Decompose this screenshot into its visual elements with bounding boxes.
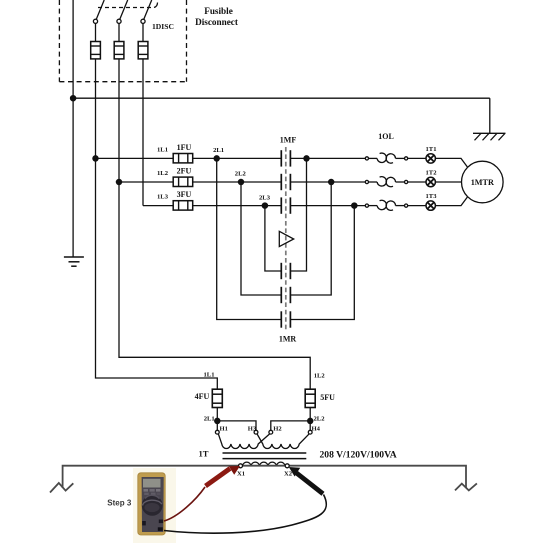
fuse 4FU — [212, 389, 222, 407]
wire pole2 circle to fuse — [118, 23, 120, 41]
disconnect switch 1DISC pole 1 hinge circle — [93, 19, 97, 23]
wire phase C fuse to line 3 — [142, 59, 144, 206]
fuse 2 of 1DISC — [114, 42, 124, 59]
contactor 1MF pole 3 contacts — [280, 197, 282, 213]
earth ground symbol (hatched) — [473, 133, 506, 140]
motor terminal 1T3 (circle with X) — [426, 201, 435, 210]
transformer 1T primary winding H3-H4 — [257, 434, 309, 449]
svg-text:3FU: 3FU — [177, 190, 192, 199]
wire phase B fuse to line 2 — [118, 59, 120, 182]
meter holster — [138, 473, 165, 535]
line 1 wire 1MF to overload — [290, 157, 365, 159]
wire 2L1 jog to H3 — [217, 421, 256, 430]
svg-text:H1: H1 — [220, 426, 228, 433]
svg-text:2FU: 2FU — [177, 166, 192, 175]
junction at ground bus — [71, 96, 76, 101]
svg-text:1L3: 1L3 — [157, 194, 169, 201]
node 2L3 drop wire to 1MR row A — [265, 206, 281, 271]
line 3 wire to 1MF — [193, 205, 282, 207]
fuse 5FU — [305, 389, 315, 407]
control power rail — [50, 466, 477, 493]
transformer core lines — [223, 452, 307, 454]
line 2 wire left — [119, 181, 173, 183]
contactor 1MF pole 2 contacts — [280, 174, 282, 190]
equipment ground bus horizontal wire — [73, 97, 490, 99]
linkage end hook — [154, 3, 158, 8]
rail break squiggle right — [455, 483, 477, 490]
red probe shaft — [206, 469, 231, 487]
svg-text:2L2: 2L2 — [314, 415, 326, 422]
motor terminal 1T1 (circle with X) — [426, 154, 435, 163]
junction node 2L1 (transformer) — [215, 418, 220, 423]
svg-text:2L3: 2L3 — [259, 195, 271, 202]
terminal H4 — [308, 430, 312, 434]
motor 1MTR circle — [462, 161, 504, 203]
svg-text:2L1: 2L1 — [213, 147, 224, 154]
svg-text:4FU: 4FU — [195, 392, 210, 401]
meter buttons — [144, 489, 149, 492]
wire phase A fuse to line 1 — [95, 59, 97, 158]
wire pole3 circle to fuse — [142, 23, 144, 41]
wire 1MR row B to line 2 right — [290, 182, 331, 295]
svg-text:2L2: 2L2 — [235, 171, 247, 178]
node 2L1 drop wire to 1MR row C — [217, 158, 282, 319]
disconnect switch 1DISC pole 2 hinge circle — [117, 19, 121, 23]
svg-text:1L2: 1L2 — [157, 170, 169, 177]
terminal H2 — [269, 430, 273, 434]
fuse 1FU — [173, 154, 193, 163]
meter rotary dial — [142, 495, 163, 516]
red test lead wire — [164, 487, 205, 521]
black test lead wire — [164, 495, 326, 534]
junction node 2L2 (transformer) — [308, 418, 313, 423]
junction line2 at phase B — [116, 179, 121, 184]
meter body — [142, 477, 164, 532]
svg-text:1L1: 1L1 — [204, 371, 215, 378]
svg-text:X2: X2 — [284, 470, 293, 477]
svg-text:1T: 1T — [198, 448, 208, 458]
fuse 3 of 1DISC — [138, 42, 148, 59]
wire overload to terminal 1T2 — [408, 181, 427, 183]
line 3 wire left — [143, 205, 173, 207]
fuse 1 of 1DISC — [91, 42, 101, 59]
overload 1OL element line 1 — [365, 157, 368, 160]
svg-text:5FU: 5FU — [320, 393, 335, 402]
multimeter photo — [133, 468, 176, 543]
svg-text:X1: X1 — [237, 470, 245, 477]
svg-text:Disconnect: Disconnect — [195, 17, 239, 27]
overload 1OL element line 2 — [365, 180, 368, 183]
disconnect enclosure dashed box — [59, 0, 186, 82]
chassis ground symbol left — [64, 257, 84, 266]
junction line3 right of 1MF — [352, 203, 357, 208]
svg-text:1T2: 1T2 — [426, 170, 438, 177]
contactor 1MF pole 1 contacts — [280, 150, 282, 166]
svg-text:1MF: 1MF — [280, 136, 297, 145]
junction line1 at phase A — [93, 156, 98, 161]
terminal X2 — [285, 464, 289, 468]
svg-text:H3: H3 — [248, 426, 257, 433]
svg-text:1MR: 1MR — [279, 334, 297, 343]
terminal H3 — [254, 430, 258, 434]
transformer 1T secondary winding X1-X2 — [243, 462, 286, 466]
text labels — [195, 6, 239, 27]
svg-text:Step 3: Step 3 — [107, 498, 132, 507]
svg-text:1DISC: 1DISC — [152, 22, 174, 31]
disconnect switch 1DISC pole 1 blade — [96, 0, 104, 19]
contactor 1MR pole C contacts — [280, 311, 282, 327]
wire 1MR row A to line 1 right — [290, 158, 306, 271]
meter jacks — [142, 521, 146, 525]
svg-text:2L1: 2L1 — [204, 415, 215, 422]
junction node 2L1 — [214, 156, 219, 161]
contactor 1MR pole B contacts — [280, 287, 282, 303]
wire 1T1 to motor — [435, 158, 467, 167]
wire overload to terminal 1T1 — [408, 157, 427, 159]
svg-text:1FU: 1FU — [177, 143, 192, 152]
mechanical linkage dashed line of 1DISC — [98, 7, 154, 9]
wire 2L2 jog to H2 — [271, 421, 310, 430]
svg-text:1T3: 1T3 — [426, 193, 438, 200]
disconnect switch 1DISC pole 2 blade — [120, 0, 128, 19]
junction node 2L3 — [262, 203, 267, 208]
contactor 1MR pole A contacts — [280, 263, 282, 279]
fuse 3FU — [173, 201, 193, 210]
wire overload to terminal 1T3 — [408, 205, 427, 207]
transformer 1T primary winding H1-H2 — [218, 434, 269, 449]
contactor 1MF linkage dashed line — [285, 147, 287, 330]
disconnect switch 1DISC pole 3 blade — [144, 0, 152, 19]
wire phase A down to transformer feed 1L1 — [96, 158, 218, 389]
black probe shaft — [297, 473, 324, 494]
mechanical interlock triangle — [279, 231, 293, 246]
wire phase B down to transformer feed 1L2 — [119, 182, 310, 389]
black probe arrowhead at X2 — [289, 467, 300, 477]
fuse 2FU — [173, 177, 193, 186]
wire 1T2 to motor — [435, 181, 461, 183]
terminal H1 — [215, 430, 219, 434]
photo background — [133, 468, 176, 543]
wire 1T3 to motor — [435, 197, 467, 206]
svg-text:H2: H2 — [273, 426, 282, 433]
meter LCD display — [143, 479, 161, 488]
svg-text:1MTR: 1MTR — [471, 178, 494, 187]
motor terminal 1T2 (circle with X) — [426, 177, 435, 186]
junction line1 right of 1MF — [304, 156, 309, 161]
wire drop to earth ground — [489, 98, 491, 133]
grounding conductor vertical wire — [72, 0, 74, 257]
rail break squiggle left — [50, 483, 73, 493]
svg-text:H4: H4 — [312, 426, 321, 433]
svg-text:1T1: 1T1 — [426, 146, 437, 153]
wire pole1 circle to fuse — [95, 23, 97, 41]
line 2 wire 1MF to overload — [290, 181, 365, 183]
svg-text:208 V/120V/100VA: 208 V/120V/100VA — [320, 450, 397, 461]
wire 4FU to node 2L1 — [216, 408, 218, 421]
terminal X1 — [239, 464, 243, 468]
red probe arrowhead at X1 — [229, 466, 240, 475]
overload 1OL element line 3 — [365, 204, 368, 207]
line 3 wire 1MF to overload — [290, 205, 365, 207]
junction line2 right of 1MF — [329, 179, 334, 184]
node 2L2 drop wire to 1MR row B — [241, 182, 281, 295]
svg-text:1L2: 1L2 — [314, 373, 326, 380]
line 1 wire left — [96, 157, 174, 159]
wire 1MR row C to line 3 right — [290, 206, 354, 320]
disconnect switch 1DISC pole 3 hinge circle — [141, 19, 145, 23]
wire 2L2 to H4 — [309, 421, 311, 430]
svg-text:1L1: 1L1 — [157, 146, 168, 153]
line 1 wire to 1MF — [193, 157, 282, 159]
svg-text:Fusible: Fusible — [204, 6, 233, 16]
line 2 wire to 1MF — [193, 181, 282, 183]
junction node 2L2 — [238, 179, 243, 184]
wire 2L1 to H1 — [216, 421, 218, 430]
wire 5FU to node 2L2 — [309, 408, 311, 421]
svg-text:1OL: 1OL — [378, 132, 394, 141]
